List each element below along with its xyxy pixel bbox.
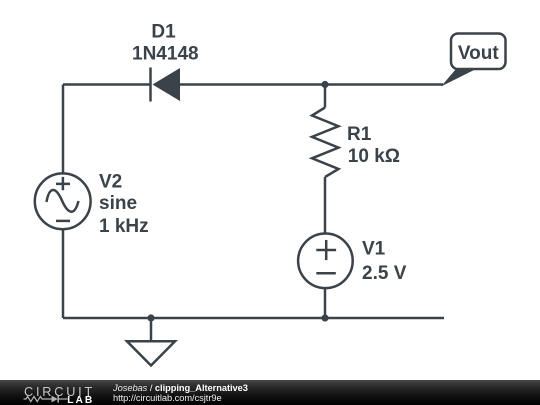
flag Vout xyxy=(441,34,506,87)
svg-text:Vout: Vout xyxy=(458,43,499,64)
footer bar xyxy=(0,380,540,405)
wire left vertical xyxy=(62,85,65,174)
svg-text:1 kHz: 1 kHz xyxy=(99,216,149,237)
svg-text:D1: D1 xyxy=(151,21,176,42)
wire R1 to V1 xyxy=(324,177,327,233)
svg-text:2.5 V: 2.5 V xyxy=(362,263,407,284)
wire top-left horizontal xyxy=(63,83,150,86)
node junction at ground xyxy=(147,314,154,321)
svg-text:LAB: LAB xyxy=(67,395,94,405)
wire left vertical lower xyxy=(62,230,65,319)
wire top-right horizontal xyxy=(180,83,443,86)
svg-text:V1: V1 xyxy=(362,238,386,259)
wire R1 top stub xyxy=(324,85,327,108)
wire V1 bottom stub xyxy=(324,288,327,319)
node junction at V1 bottom xyxy=(321,314,328,321)
source V1 xyxy=(298,233,353,288)
svg-text:R1: R1 xyxy=(347,124,372,145)
diode D1 xyxy=(151,68,181,102)
svg-text:10 kΩ: 10 kΩ xyxy=(348,146,400,167)
svg-text:V2: V2 xyxy=(99,171,122,192)
source V2 xyxy=(35,173,91,229)
svg-text:1N4148: 1N4148 xyxy=(132,44,199,65)
svg-text:sine: sine xyxy=(99,193,137,214)
node junction at R1 top xyxy=(321,81,328,88)
wire bottom horizontal xyxy=(63,317,444,320)
ground xyxy=(127,341,175,365)
CircuitLab logo xyxy=(0,380,110,405)
wire ground stub xyxy=(150,318,153,341)
resistor R1 xyxy=(312,108,339,178)
